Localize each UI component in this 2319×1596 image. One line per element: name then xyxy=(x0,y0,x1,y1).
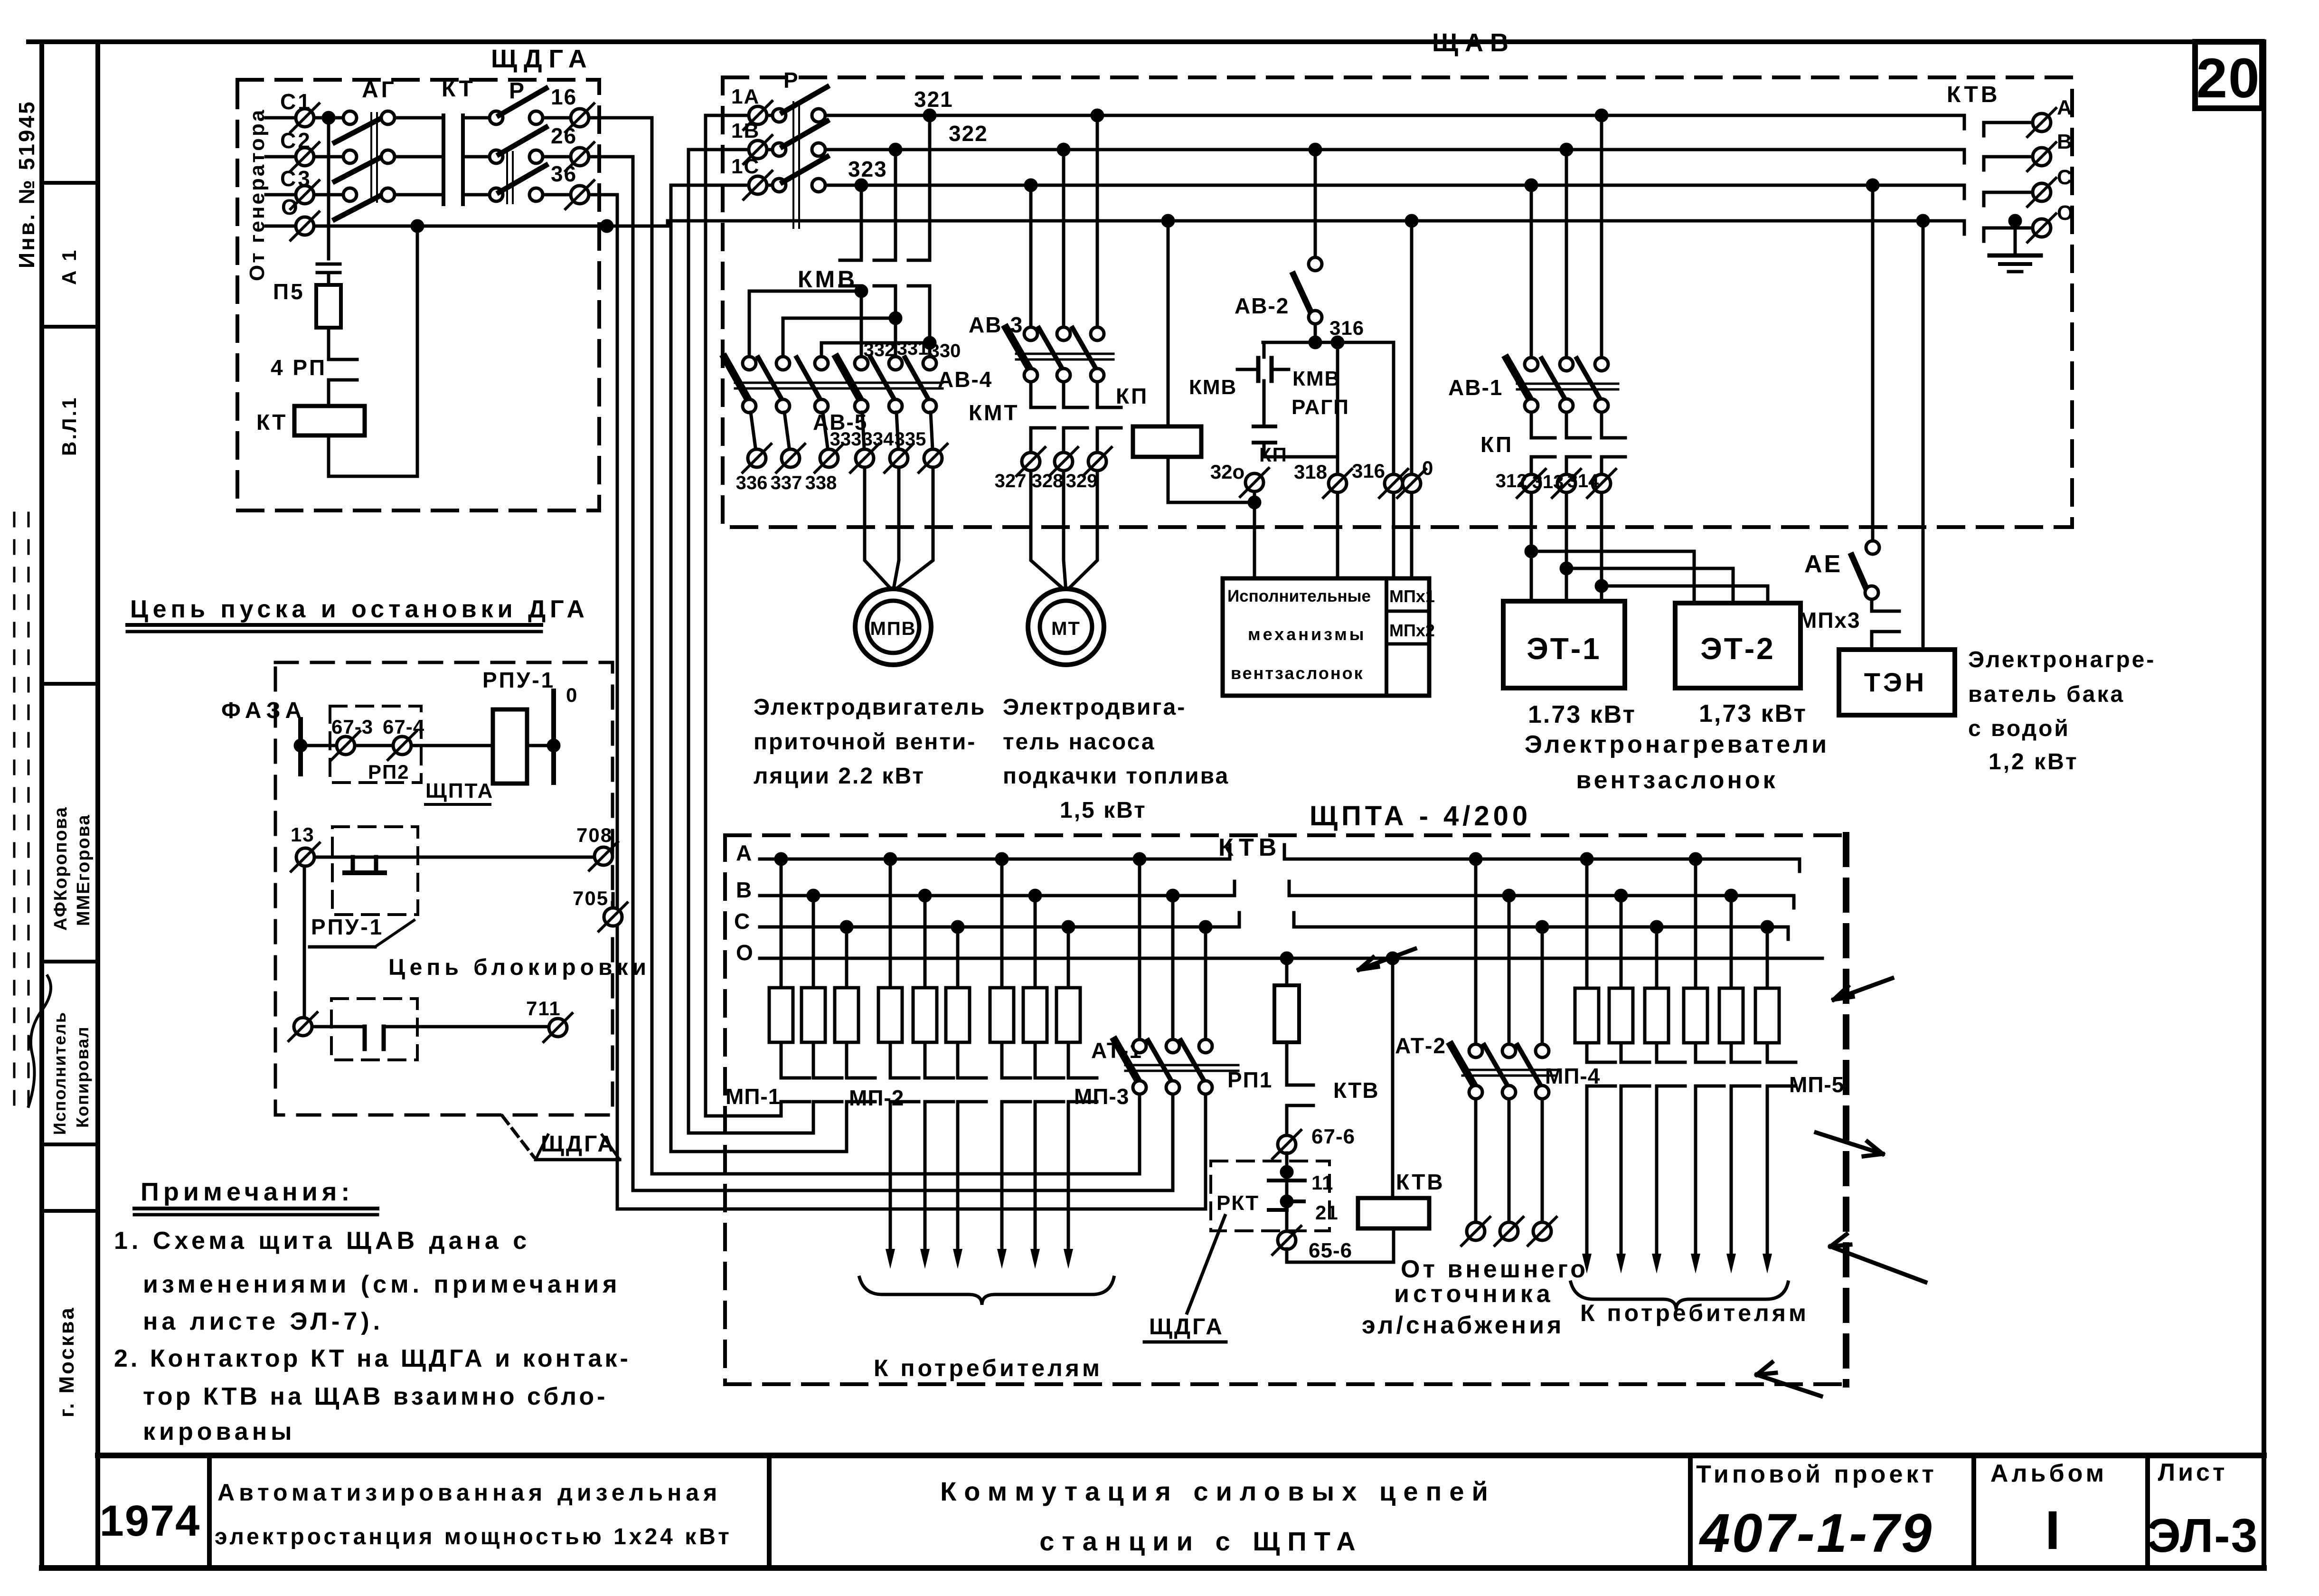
AG mechanical tie xyxy=(370,113,372,202)
svg-text:2. Контактор КТ на ЩДГА и конт: 2. Контактор КТ на ЩДГА и контак- xyxy=(114,1345,631,1372)
svg-text:КТ: КТ xyxy=(256,410,287,434)
svg-text:станции с ЩПТА: станции с ЩПТА xyxy=(1039,1526,1363,1556)
svg-text:КП: КП xyxy=(1116,384,1149,408)
svg-text:333: 333 xyxy=(830,429,862,450)
svg-text:Электронагреватели: Электронагреватели xyxy=(1525,731,1829,758)
svg-text:323: 323 xyxy=(848,157,887,181)
svg-text:338: 338 xyxy=(805,472,837,493)
svg-text:20: 20 xyxy=(2196,47,2260,110)
svg-text:1В: 1В xyxy=(731,119,760,142)
svg-text:708: 708 xyxy=(576,824,613,846)
border frame xyxy=(28,39,2264,44)
fuse column x=2017 xyxy=(952,922,963,932)
svg-text:316: 316 xyxy=(1352,460,1385,482)
R tie xyxy=(792,102,794,228)
svg-text:ЩДГА: ЩДГА xyxy=(491,45,594,73)
svg-text:А: А xyxy=(736,840,752,865)
heater ET-2 xyxy=(1675,603,1801,688)
node 316 drop xyxy=(1392,342,1395,475)
contact MP step xyxy=(784,1078,810,1102)
panel box SchPTA (dashed) xyxy=(725,833,1846,837)
svg-text:КМВ: КМВ xyxy=(798,266,858,293)
svg-text:О: О xyxy=(281,195,300,219)
contact 11 xyxy=(1269,1179,1305,1182)
fuse column x=2250 xyxy=(1063,922,1074,932)
coil KP xyxy=(1163,216,1173,226)
wire to coil KTV xyxy=(1287,1249,1394,1262)
branch to fuse P5 xyxy=(327,118,330,259)
margin signature xyxy=(28,976,51,1106)
label SchDGA with leader (RKT) xyxy=(1187,1216,1225,1313)
svg-text:Цепь блокировки: Цепь блокировки xyxy=(388,955,650,980)
contact MP step xyxy=(1698,1062,1724,1086)
contact MP step xyxy=(1005,1078,1030,1102)
contact KMV xyxy=(874,259,896,262)
svg-text:КМВ: КМВ xyxy=(1292,367,1340,390)
svg-text:кированы: кированы xyxy=(143,1418,296,1445)
panel box SchAV (dashed) xyxy=(723,77,2072,527)
contact MP step xyxy=(1038,1078,1064,1102)
svg-text:КТВ: КТВ xyxy=(1396,1170,1445,1194)
terminal 67-6 xyxy=(1273,1130,1301,1159)
svg-text:РКТ: РКТ xyxy=(1216,1191,1259,1215)
AV-5 outputs 336 337 338 xyxy=(751,412,756,451)
bold right edge of SchPTA xyxy=(1843,835,1849,1384)
TEN right feed from 0 bus xyxy=(1918,216,1928,226)
svg-text:Исполнитель: Исполнитель xyxy=(50,1011,69,1135)
svg-text:С: С xyxy=(734,909,750,934)
wire 1A down-run xyxy=(704,115,707,1116)
contact MP step xyxy=(1734,1062,1760,1086)
contact MP step xyxy=(928,1078,953,1102)
AT-1 returns to SchDGA runs xyxy=(652,1095,1140,1174)
svg-text:В: В xyxy=(2057,130,2073,153)
contact R pole 2 xyxy=(490,150,503,163)
svg-text:705: 705 xyxy=(573,887,609,909)
switch R pole 1 xyxy=(782,87,827,113)
svg-text:328: 328 xyxy=(1032,471,1064,491)
bus B (PTA) xyxy=(760,881,1235,896)
label SchDGA with leader (left) xyxy=(502,1116,534,1157)
svg-text:1,2 кВт: 1,2 кВт xyxy=(1989,749,2079,774)
svg-text:РПУ-1: РПУ-1 xyxy=(311,915,384,939)
svg-text:0: 0 xyxy=(566,684,578,706)
ground xyxy=(2010,216,2020,226)
bus C (PTA) xyxy=(760,913,1239,927)
svg-text:16: 16 xyxy=(551,85,577,109)
svg-text:332: 332 xyxy=(864,340,896,360)
fuse of KTV control xyxy=(1282,953,1292,963)
breaker AV-5 xyxy=(743,357,756,370)
svg-text:АВ-3: АВ-3 xyxy=(969,312,1023,337)
motor MT xyxy=(1028,589,1104,665)
svg-text:316: 316 xyxy=(1329,317,1364,339)
svg-text:подкачки топлива: подкачки топлива xyxy=(1003,764,1229,789)
svg-text:О: О xyxy=(2057,201,2074,225)
svg-text:МП-5: МП-5 xyxy=(1789,1072,1844,1097)
svg-text:1,5 кВт: 1,5 кВт xyxy=(1060,798,1147,823)
wire С1 to KT contact xyxy=(396,116,443,120)
staircase to AV-5 xyxy=(860,286,863,291)
svg-text:67-3: 67-3 xyxy=(331,716,373,738)
wire 16 down-run xyxy=(589,118,652,1174)
svg-text:ЭТ-2: ЭТ-2 xyxy=(1700,632,1775,666)
svg-text:С: С xyxy=(2057,166,2073,189)
fuse column x=3646 xyxy=(1726,890,1736,901)
contact MP step xyxy=(961,1078,986,1102)
svg-text:К потребителям: К потребителям xyxy=(1580,1300,1809,1326)
svg-text:МПх3: МПх3 xyxy=(1799,608,1861,633)
svg-text:РПУ-1: РПУ-1 xyxy=(482,668,555,692)
svg-text:Электродвига-: Электродвига- xyxy=(1003,695,1186,720)
svg-text:КТ: КТ xyxy=(442,76,476,102)
motor MT wires xyxy=(1031,471,1066,591)
contact MP step xyxy=(816,1078,842,1102)
svg-text:МТ: МТ xyxy=(1051,618,1081,639)
svg-text:1.73 кВт: 1.73 кВт xyxy=(1528,701,1636,728)
svg-text:ЩПТА - 4/200: ЩПТА - 4/200 xyxy=(1310,801,1531,831)
wire С3 to KT contact xyxy=(396,193,443,197)
svg-text:О: О xyxy=(736,940,754,965)
svg-text:331: 331 xyxy=(897,338,929,359)
svg-text:КТВ: КТВ xyxy=(1333,1078,1379,1103)
svg-text:изменениями (см. примечания: изменениями (см. примечания xyxy=(143,1271,621,1298)
svg-text:От внешнего: От внешнего xyxy=(1401,1256,1588,1283)
sheet number box 20 xyxy=(2195,42,2262,108)
svg-text:312: 312 xyxy=(1496,471,1527,491)
svg-text:К потребителям: К потребителям xyxy=(874,1355,1103,1381)
svg-text:КМВ: КМВ xyxy=(1189,376,1237,399)
svg-text:Копировал: Копировал xyxy=(73,1026,92,1128)
svg-text:механизмы: механизмы xyxy=(1248,624,1366,644)
svg-text:КТВ: КТВ xyxy=(1218,834,1281,861)
wire O bus xyxy=(314,225,668,228)
svg-text:МПх1: МПх1 xyxy=(1389,586,1435,606)
svg-text:1,73 кВт: 1,73 кВт xyxy=(1699,700,1807,727)
svg-text:4 РП: 4 РП xyxy=(271,355,327,380)
consumer drops left group xyxy=(889,1102,892,1249)
svg-text:336: 336 xyxy=(736,472,768,493)
svg-text:АФКоропова: АФКоропова xyxy=(51,806,71,931)
node 0 drop xyxy=(1406,216,1417,226)
svg-text:36: 36 xyxy=(551,161,577,186)
contact MP step xyxy=(1770,1062,1796,1086)
fuse column x=2180 xyxy=(1030,890,1040,901)
svg-text:26: 26 xyxy=(551,123,577,148)
rung 3: wire 711 xyxy=(289,1012,317,1041)
fuse column x=1713 xyxy=(808,890,819,901)
svg-text:г. Москва: г. Москва xyxy=(55,1306,78,1417)
brace consumers left xyxy=(859,1277,1114,1305)
KT contact bars xyxy=(442,115,445,204)
svg-text:1А: 1А xyxy=(731,85,760,108)
svg-text:ЩДГА: ЩДГА xyxy=(1149,1314,1224,1340)
svg-text:67-6: 67-6 xyxy=(1311,1125,1355,1148)
svg-text:21: 21 xyxy=(1315,1201,1339,1224)
contact R pole 1 xyxy=(490,111,503,124)
svg-text:Электронагре-: Электронагре- xyxy=(1968,647,2156,672)
fuse column x=3342 xyxy=(1582,854,1592,864)
fuse column x=3489 xyxy=(1651,922,1662,932)
rung 1 right end node 0 xyxy=(527,744,554,747)
svg-text:АВ-1: АВ-1 xyxy=(1448,375,1503,400)
svg-text:ЩДГА: ЩДГА xyxy=(541,1132,616,1157)
contact (NO) on rung 3 xyxy=(363,1027,367,1049)
svg-text:КТВ: КТВ xyxy=(1947,82,2000,107)
svg-text:Р: Р xyxy=(783,68,799,93)
contact MP step xyxy=(1590,1062,1615,1086)
svg-text:330: 330 xyxy=(929,340,961,361)
contact MPx3 xyxy=(1870,600,1874,611)
wire С2 to KT contact xyxy=(396,155,443,159)
wire KT coil return xyxy=(329,226,417,476)
svg-text:вентзаслонок: вентзаслонок xyxy=(1576,766,1778,794)
svg-text:МП-4: МП-4 xyxy=(1545,1064,1600,1088)
drops into actuator box xyxy=(1253,492,1256,578)
bus O (PTA) xyxy=(760,957,1822,960)
svg-text:711: 711 xyxy=(526,997,561,1020)
contact AG pole 1 xyxy=(343,111,357,124)
svg-text:В: В xyxy=(736,878,752,902)
contact KMV xyxy=(908,259,930,262)
bus A xyxy=(826,114,1964,117)
wire 1C down-run xyxy=(669,185,673,1152)
coil KP return wire xyxy=(1168,457,1254,502)
svg-text:ЭТ-1: ЭТ-1 xyxy=(1527,632,1602,666)
title block xyxy=(98,1453,2264,1458)
svg-text:I: I xyxy=(2045,1500,2061,1561)
box actuator mechanisms xyxy=(1223,578,1429,696)
bus C xyxy=(826,184,1964,187)
svg-text:МП-1: МП-1 xyxy=(726,1084,781,1109)
heater feed wires xyxy=(1530,493,1533,601)
svg-text:Электродвигатель: Электродвигатель xyxy=(754,695,986,720)
svg-text:ватель бака: ватель бака xyxy=(1968,682,2125,707)
svg-text:Коммутация силовых цепей: Коммутация силовых цепей xyxy=(940,1476,1496,1506)
margin fold lines xyxy=(13,513,16,1106)
bus A (PTA) xyxy=(760,845,1230,859)
svg-text:П5: П5 xyxy=(273,279,305,304)
box RP2 (dashed) xyxy=(330,706,421,783)
svg-text:МПВ: МПВ xyxy=(870,618,916,639)
contact RPU-1 (NO bridge) xyxy=(351,857,355,870)
svg-text:АВ-2: АВ-2 xyxy=(1235,293,1289,318)
box around contact (dashed) xyxy=(332,827,418,915)
contact MP step xyxy=(849,1078,875,1102)
switch R pole 3 xyxy=(782,157,827,182)
fuse column x=3571 xyxy=(1690,854,1701,864)
contact MP step xyxy=(1624,1062,1650,1086)
revision arrows xyxy=(1834,978,1892,1000)
svg-text:321: 321 xyxy=(914,87,953,112)
svg-text:АГ: АГ xyxy=(362,77,397,103)
svg-text:ММЕгорова: ММЕгорова xyxy=(74,814,94,926)
svg-text:ЩАВ: ЩАВ xyxy=(1432,28,1515,57)
svg-text:Цепь пуска и остановки ДГА: Цепь пуска и остановки ДГА xyxy=(130,595,589,623)
brace consumers right xyxy=(1571,1282,1788,1310)
svg-text:тор КТВ на ЩАВ взаимно сбло-: тор КТВ на ЩАВ взаимно сбло- xyxy=(143,1383,608,1410)
svg-text:ЩПТА: ЩПТА xyxy=(425,779,494,803)
svg-text:Типовой проект: Типовой проект xyxy=(1696,1461,1937,1488)
svg-text:АТ-2: АТ-2 xyxy=(1395,1033,1446,1058)
svg-text:источника: источника xyxy=(1394,1280,1554,1308)
svg-text:32о: 32о xyxy=(1210,461,1244,483)
svg-text:Автоматизированная дизельная: Автоматизированная дизельная xyxy=(217,1479,721,1506)
svg-text:РП2: РП2 xyxy=(368,761,410,783)
switch AE xyxy=(1867,180,1878,190)
fuse column x=1645 xyxy=(776,854,786,864)
svg-text:11: 11 xyxy=(1311,1171,1333,1194)
contact 21 xyxy=(1282,1196,1292,1207)
contact MP step xyxy=(893,1078,919,1102)
svg-text:0: 0 xyxy=(1422,457,1433,479)
svg-text:Альбом: Альбом xyxy=(1990,1460,2107,1487)
svg-text:эл/снабжения: эл/снабжения xyxy=(1362,1312,1564,1339)
contact AG pole 3 xyxy=(343,188,357,201)
svg-text:322: 322 xyxy=(949,121,988,146)
svg-text:ТЭН: ТЭН xyxy=(1864,667,1927,697)
svg-text:314: 314 xyxy=(1567,471,1599,491)
svg-text:1974: 1974 xyxy=(100,1497,201,1545)
svg-text:67-4: 67-4 xyxy=(383,716,424,738)
KMV feeder drops xyxy=(856,180,867,190)
fuse column x=2110 xyxy=(997,854,1007,864)
box RKT (dashed) xyxy=(1211,1161,1329,1231)
MP-1 elbows to SchAV feed xyxy=(707,1102,781,1116)
R mechanical tie xyxy=(506,152,508,203)
box RPU (dashed) xyxy=(275,662,613,1115)
svg-text:318: 318 xyxy=(1294,461,1327,483)
terminal 320 xyxy=(1240,468,1269,497)
contact R pole 3 xyxy=(490,188,503,201)
fuse column x=3414 xyxy=(1616,890,1626,901)
svg-text:А: А xyxy=(2057,96,2073,119)
wire 26 down-run xyxy=(589,157,633,1190)
svg-text:МП-2: МП-2 xyxy=(849,1086,904,1110)
svg-text:ляции 2.2 кВт: ляции 2.2 кВт xyxy=(754,764,925,789)
motor MPV xyxy=(855,589,931,665)
terminal 65-6 xyxy=(1273,1226,1301,1255)
svg-text:ФАЗА: ФАЗА xyxy=(221,698,306,723)
contact MP step xyxy=(1071,1078,1097,1102)
heater ET-1 xyxy=(1503,601,1625,688)
contact AG pole 2 xyxy=(343,150,357,163)
wire 1B down-run xyxy=(687,150,690,1133)
fuse column x=3722 xyxy=(1762,922,1772,932)
svg-text:337: 337 xyxy=(771,472,802,493)
svg-text:А 1: А 1 xyxy=(58,248,80,285)
svg-text:13: 13 xyxy=(291,823,315,846)
fuse column x=1875 xyxy=(885,854,896,864)
node line 316 xyxy=(1263,341,1394,344)
svg-text:МП-3: МП-3 xyxy=(1074,1084,1129,1109)
svg-text:МПх2: МПх2 xyxy=(1389,621,1435,640)
fuse column x=1948 xyxy=(920,890,930,901)
svg-text:Исполнительные: Исполнительные xyxy=(1227,587,1371,605)
phase bar xyxy=(298,719,303,774)
svg-text:РП1: РП1 xyxy=(1227,1067,1273,1092)
rung 1 wire xyxy=(301,744,493,747)
svg-text:1С: 1С xyxy=(731,155,760,178)
svg-text:на листе ЭЛ-7).: на листе ЭЛ-7). xyxy=(143,1308,384,1335)
svg-text:В.Л.1: В.Л.1 xyxy=(58,396,80,456)
svg-text:Лист: Лист xyxy=(2158,1459,2228,1486)
wire 36 down-run xyxy=(589,195,617,1209)
node 318 xyxy=(1336,342,1339,475)
svg-text:313: 313 xyxy=(1532,472,1564,492)
panel box SchDGA (dashed) xyxy=(237,80,599,510)
svg-text:КП: КП xyxy=(1480,432,1513,457)
svg-text:Р: Р xyxy=(509,78,527,104)
fuse column x=1783 xyxy=(841,922,852,932)
svg-text:АЕ: АЕ xyxy=(1804,550,1842,578)
svg-text:65-6: 65-6 xyxy=(1309,1239,1352,1262)
svg-text:407-1-79: 407-1-79 xyxy=(1699,1503,1933,1564)
left drop wire xyxy=(303,867,306,1017)
svg-text:327: 327 xyxy=(995,471,1027,491)
contact MP step xyxy=(1659,1062,1685,1086)
svg-text:Примечания:: Примечания: xyxy=(141,1178,354,1206)
svg-text:вентзаслонок: вентзаслонок xyxy=(1231,663,1364,683)
svg-text:АВ-4: АВ-4 xyxy=(938,367,992,392)
svg-text:Инв. № 51945: Инв. № 51945 xyxy=(14,100,39,268)
stamp column dividers xyxy=(42,181,98,185)
switch R pole 2 xyxy=(782,121,827,147)
svg-text:329: 329 xyxy=(1066,471,1098,491)
bus B xyxy=(826,148,1964,151)
svg-text:ЭЛ-3: ЭЛ-3 xyxy=(2147,1509,2258,1562)
svg-text:тель насоса: тель насоса xyxy=(1003,729,1156,755)
contact KMV xyxy=(840,259,861,262)
svg-text:КМТ: КМТ xyxy=(969,400,1019,425)
1A/1B/1C stubs to down-runs xyxy=(706,114,748,117)
heater TEN xyxy=(1839,650,1955,715)
svg-text:1. Схема щита ЩАВ дана с: 1. Схема щита ЩАВ дана с xyxy=(114,1227,530,1255)
svg-text:приточной венти-: приточной венти- xyxy=(754,729,976,755)
svg-text:РАГП: РАГП xyxy=(1291,396,1349,419)
box around rung3 contact (dashed) xyxy=(331,999,417,1060)
svg-text:с водой: с водой xyxy=(1968,716,2070,741)
svg-text:электростанция мощностью 1х24: электростанция мощностью 1х24 кВт xyxy=(215,1524,732,1549)
